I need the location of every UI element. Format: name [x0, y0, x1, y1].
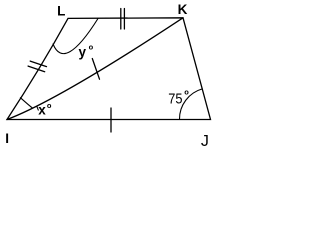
svg-text:L: L [57, 4, 65, 19]
svg-text:y: y [79, 44, 87, 59]
svg-text:I: I [5, 131, 9, 146]
svg-text:J: J [201, 133, 209, 150]
svg-text:K: K [178, 2, 188, 17]
svg-text:o: o [47, 101, 52, 110]
svg-text:o: o [89, 43, 94, 52]
svg-text:x: x [38, 102, 46, 117]
svg-text:o: o [184, 88, 189, 97]
svg-text:75: 75 [168, 91, 182, 108]
